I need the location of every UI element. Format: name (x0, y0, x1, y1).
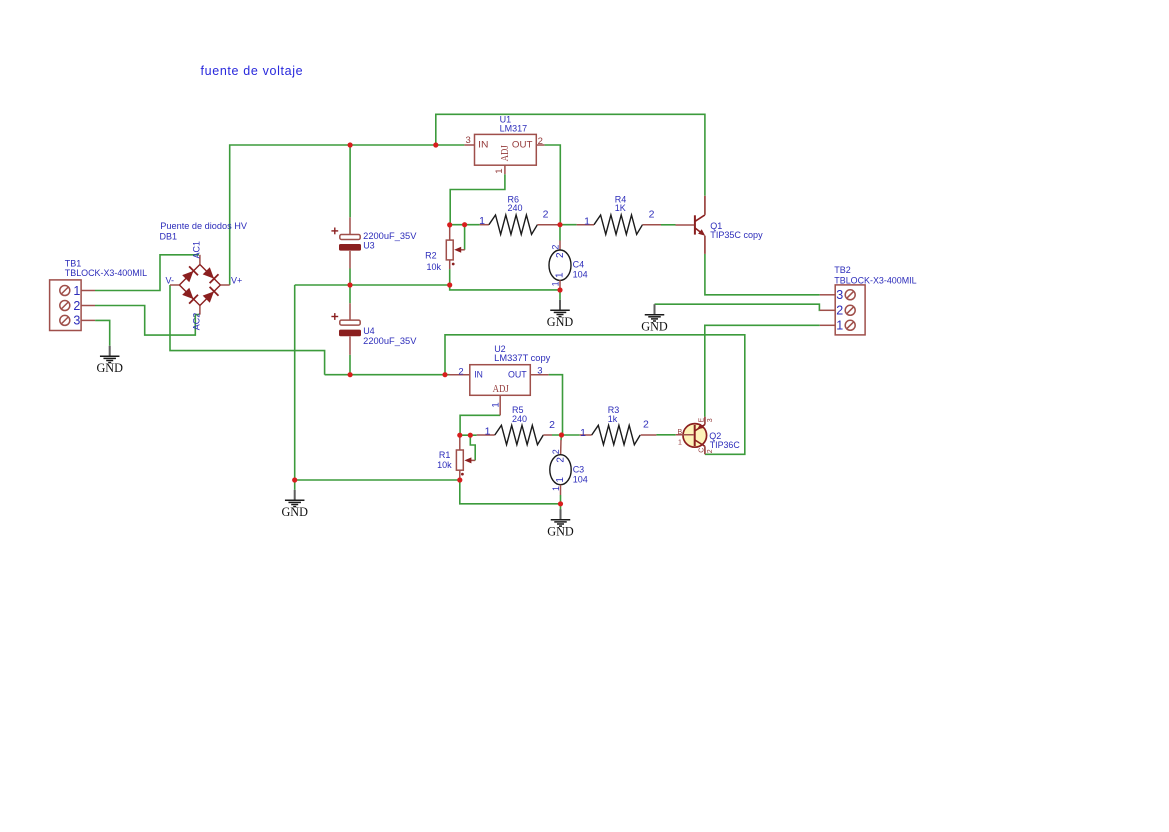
svg-text:104: 104 (573, 269, 588, 279)
svg-text:3: 3 (73, 314, 80, 328)
svg-text:ADJ: ADJ (493, 384, 509, 395)
svg-text:U3: U3 (363, 241, 375, 251)
svg-text:AC1: AC1 (192, 241, 202, 259)
svg-text:LM317: LM317 (500, 123, 528, 133)
svg-text:2: 2 (73, 299, 80, 313)
svg-text:U4: U4 (363, 326, 375, 336)
svg-text:10k: 10k (426, 262, 441, 272)
svg-text:1: 1 (580, 427, 586, 439)
svg-text:2: 2 (643, 418, 649, 430)
svg-text:1: 1 (836, 319, 843, 333)
svg-text:C4: C4 (573, 259, 585, 269)
svg-text:3: 3 (707, 418, 714, 422)
svg-text:2: 2 (538, 136, 543, 147)
svg-text:C3: C3 (573, 464, 585, 474)
svg-text:1: 1 (551, 281, 561, 286)
svg-text:DB1: DB1 (160, 232, 178, 242)
svg-text:2: 2 (555, 457, 566, 463)
svg-text:LM337T copy: LM337T copy (494, 353, 551, 363)
svg-text:GND: GND (96, 360, 123, 375)
svg-text:3: 3 (466, 135, 471, 146)
svg-text:fuente de voltaje: fuente de voltaje (201, 64, 304, 78)
svg-text:1k: 1k (608, 414, 618, 424)
svg-text:Puente de diodos HV: Puente de diodos HV (160, 221, 247, 231)
svg-text:OUT: OUT (512, 140, 533, 151)
svg-text:1K: 1K (615, 203, 626, 213)
svg-text:TB2: TB2 (834, 265, 851, 275)
svg-text:104: 104 (573, 474, 588, 484)
svg-text:1: 1 (485, 425, 491, 437)
svg-text:V-: V- (165, 275, 174, 285)
svg-text:C: C (698, 448, 705, 453)
svg-text:GND: GND (641, 318, 668, 333)
svg-text:IN: IN (478, 140, 488, 151)
svg-text:E: E (698, 418, 705, 423)
svg-text:GND: GND (547, 523, 574, 538)
svg-text:OUT: OUT (508, 369, 527, 380)
svg-text:TB1: TB1 (65, 259, 82, 269)
svg-text:R2: R2 (425, 251, 437, 261)
svg-text:2: 2 (551, 245, 561, 250)
svg-text:1: 1 (73, 284, 80, 298)
svg-text:R1: R1 (439, 450, 451, 460)
svg-text:GND: GND (547, 314, 574, 329)
svg-text:1: 1 (555, 272, 566, 278)
svg-text:2: 2 (543, 209, 549, 221)
svg-text:1: 1 (584, 216, 590, 228)
svg-text:1: 1 (490, 402, 501, 407)
svg-text:2: 2 (551, 449, 561, 454)
svg-text:1: 1 (494, 169, 505, 174)
svg-text:V+: V+ (231, 275, 242, 285)
svg-text:1: 1 (555, 477, 566, 483)
svg-text:2: 2 (836, 304, 843, 318)
svg-text:10k: 10k (437, 460, 452, 470)
svg-text:240: 240 (512, 414, 527, 424)
svg-text:240: 240 (508, 203, 523, 213)
svg-text:2200uF_35V: 2200uF_35V (363, 336, 416, 346)
svg-text:2: 2 (549, 419, 555, 431)
svg-text:2: 2 (555, 252, 566, 258)
svg-text:TBLOCK-X3-400MIL: TBLOCK-X3-400MIL (834, 275, 916, 285)
svg-text:1: 1 (551, 486, 561, 491)
svg-text:1: 1 (678, 439, 682, 446)
svg-text:B: B (678, 429, 683, 436)
svg-text:TBLOCK-X3-400MIL: TBLOCK-X3-400MIL (65, 268, 147, 278)
svg-text:AC2: AC2 (192, 313, 202, 331)
svg-text:2: 2 (649, 209, 655, 221)
svg-text:TIP35C copy: TIP35C copy (710, 230, 763, 240)
svg-text:1: 1 (479, 215, 485, 227)
svg-text:TIP36C: TIP36C (710, 440, 741, 450)
svg-text:3: 3 (537, 365, 542, 376)
svg-text:3: 3 (836, 288, 843, 302)
svg-text:IN: IN (474, 369, 483, 380)
svg-text:ADJ: ADJ (500, 145, 511, 161)
svg-text:GND: GND (281, 504, 308, 519)
svg-text:2: 2 (458, 367, 463, 378)
